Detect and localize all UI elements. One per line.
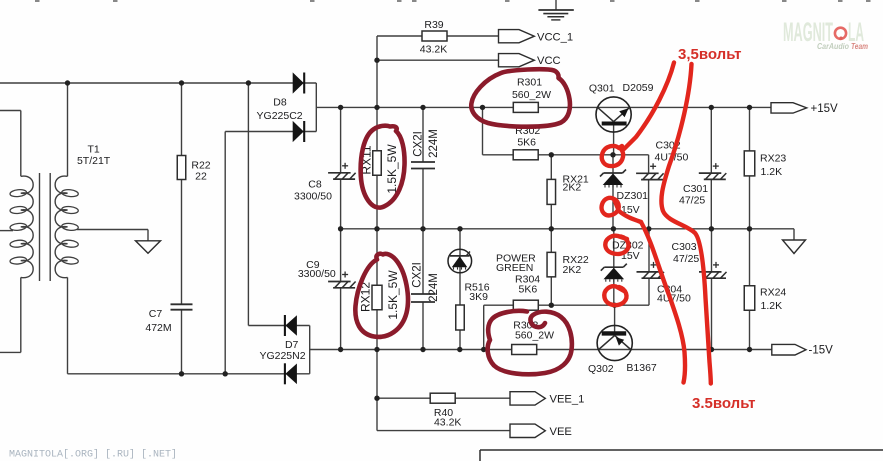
svg-text:Q302: Q302	[588, 363, 614, 375]
svg-text:-15V: -15V	[809, 345, 834, 357]
svg-text:R301: R301	[517, 76, 542, 88]
svg-text:D2059: D2059	[623, 82, 654, 94]
svg-text:3300/50: 3300/50	[294, 191, 332, 203]
svg-text:5K6: 5K6	[517, 136, 536, 148]
svg-text:YG225N2: YG225N2	[259, 350, 305, 362]
svg-text:3300/50: 3300/50	[298, 268, 336, 280]
svg-text:GREEN: GREEN	[496, 262, 533, 274]
svg-text:224M: 224M	[428, 129, 440, 158]
svg-text:22: 22	[195, 171, 207, 183]
svg-text:224M: 224M	[428, 273, 440, 302]
svg-text:472M: 472M	[145, 322, 171, 334]
svg-text:CX2I: CX2I	[412, 262, 424, 288]
svg-text:560_2W: 560_2W	[515, 330, 554, 342]
svg-text:C8: C8	[308, 179, 322, 191]
svg-text:Q301: Q301	[589, 83, 615, 95]
svg-text:3.5вольт: 3.5вольт	[692, 395, 755, 412]
svg-text:3,5вольт: 3,5вольт	[678, 46, 741, 63]
svg-text:YG225C2: YG225C2	[257, 110, 303, 122]
svg-text:2K2: 2K2	[563, 264, 582, 276]
svg-text:+15V: +15V	[811, 103, 839, 115]
svg-text:560_2W: 560_2W	[512, 89, 551, 101]
svg-text:5T/21T: 5T/21T	[77, 155, 111, 167]
svg-text:1.2K: 1.2K	[761, 300, 783, 312]
svg-text:1.5K_5W: 1.5K_5W	[386, 270, 400, 320]
svg-text:Team: Team	[851, 42, 868, 51]
svg-text:T1: T1	[87, 144, 99, 156]
svg-text:1.5K_5W: 1.5K_5W	[385, 144, 399, 194]
svg-text:5K6: 5K6	[519, 283, 538, 295]
svg-text:C303: C303	[672, 241, 697, 253]
svg-text:B1367: B1367	[626, 362, 657, 374]
svg-text:1.2K: 1.2K	[761, 166, 783, 178]
svg-text:3K9: 3K9	[469, 291, 488, 303]
svg-text:DZ301: DZ301	[617, 190, 649, 202]
svg-text:CX2I: CX2I	[413, 131, 425, 157]
svg-text:D8: D8	[273, 97, 287, 109]
svg-text:VCC: VCC	[537, 55, 561, 67]
svg-text:43.2K: 43.2K	[434, 417, 461, 429]
svg-text:C301: C301	[683, 183, 708, 195]
svg-text:VEE: VEE	[550, 426, 572, 438]
svg-text:CarAudio: CarAudio	[817, 42, 849, 51]
svg-text:47/25: 47/25	[673, 253, 699, 265]
svg-text:VCC_1: VCC_1	[537, 31, 573, 43]
svg-text:47/25: 47/25	[679, 195, 705, 207]
svg-text:RX24: RX24	[760, 287, 786, 299]
svg-text:RX23: RX23	[760, 152, 786, 164]
svg-text:2K2: 2K2	[563, 182, 582, 194]
svg-text:MAGNITOLA[.ORG] [.RU] [.NET]: MAGNITOLA[.ORG] [.RU] [.NET]	[9, 449, 177, 461]
svg-text:43.2K: 43.2K	[420, 44, 447, 56]
svg-text:C7: C7	[149, 308, 163, 320]
svg-text:R39: R39	[424, 19, 443, 31]
svg-text:VEE_1: VEE_1	[550, 394, 585, 406]
